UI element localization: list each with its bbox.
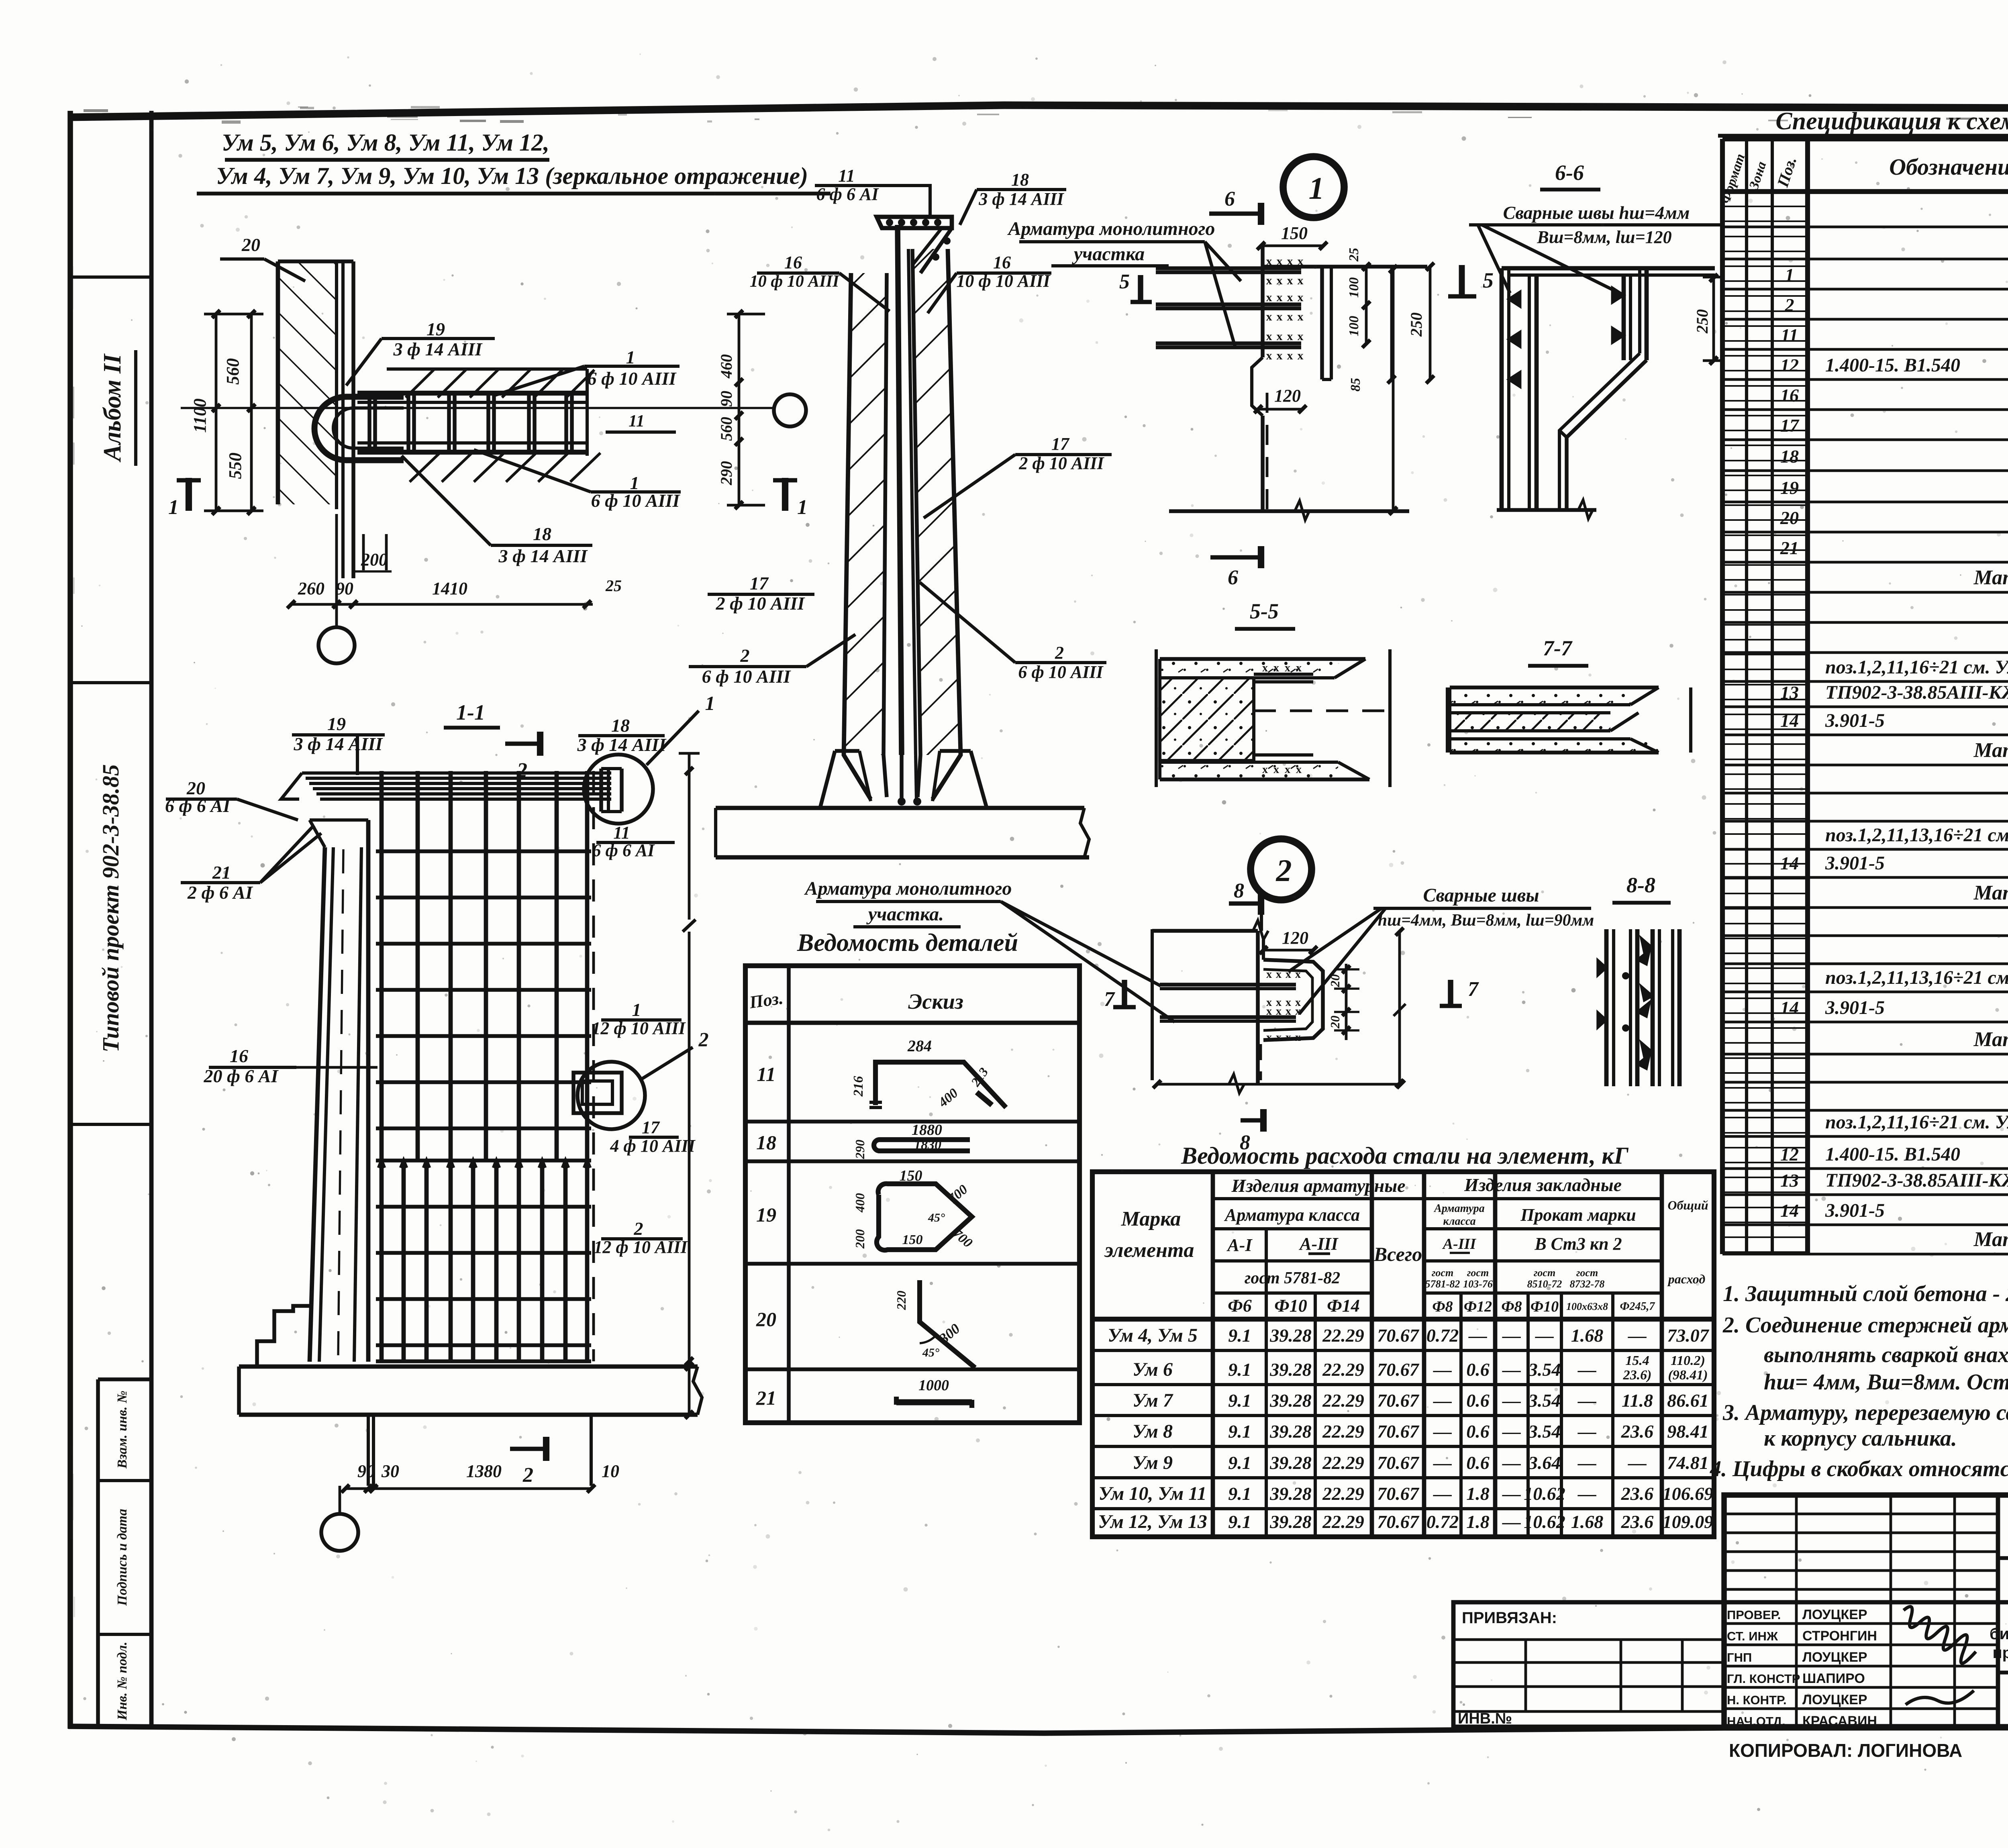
svg-text:Типовой проект 902-3-38.85: Типовой проект 902-3-38.85	[98, 764, 124, 1053]
svg-text:17: 17	[750, 573, 769, 594]
svg-text:x: x	[1298, 310, 1304, 323]
svg-text:284: 284	[907, 1037, 932, 1055]
svg-text:—: —	[1433, 1483, 1452, 1504]
svg-text:СТ. ИНЖ: СТ. ИНЖ	[1727, 1629, 1778, 1643]
svg-text:3.901-5: 3.901-5	[1825, 710, 1885, 731]
svg-text:39.28: 39.28	[1269, 1511, 1312, 1532]
svg-text:14: 14	[1780, 997, 1799, 1018]
svg-text:17: 17	[642, 1118, 660, 1137]
svg-text:НАЧ.ОТД.: НАЧ.ОТД.	[1727, 1714, 1786, 1728]
svg-text:1.68: 1.68	[1571, 1511, 1604, 1532]
svg-text:ПРИВЯЗАН:: ПРИВЯЗАН:	[1462, 1609, 1557, 1627]
svg-text:—: —	[1577, 1359, 1596, 1380]
svg-text:Марка: Марка	[1121, 1208, 1181, 1230]
svg-text:гост: гост	[1576, 1267, 1598, 1279]
svg-text:20: 20	[241, 235, 260, 255]
svg-text:Ведомость расхода стали на эле: Ведомость расхода стали на элемент, кГ	[1181, 1142, 1629, 1169]
svg-text:11: 11	[1781, 325, 1798, 345]
svg-text:ИНВ.№: ИНВ.№	[1458, 1710, 1512, 1727]
svg-text:x: x	[1298, 291, 1304, 304]
svg-text:560: 560	[223, 358, 243, 385]
svg-text:hш=4мм, Вш=8мм, lш=90мм: hш=4мм, Вш=8мм, lш=90мм	[1378, 911, 1594, 930]
svg-text:3 ф 14 АIII: 3 ф 14 АIII	[978, 189, 1064, 209]
svg-text:3.901-5: 3.901-5	[1825, 997, 1885, 1018]
svg-text:x: x	[1262, 662, 1268, 674]
svg-text:x: x	[1266, 310, 1272, 323]
svg-text:16: 16	[1780, 385, 1799, 406]
svg-text:39.28: 39.28	[1269, 1325, 1312, 1346]
svg-text:1: 1	[1785, 265, 1794, 285]
svg-text:Инв. № подл.: Инв. № подл.	[115, 1642, 130, 1720]
svg-text:11: 11	[629, 412, 645, 430]
svg-text:x: x	[1277, 330, 1283, 343]
svg-text:3.54: 3.54	[1528, 1421, 1561, 1442]
svg-text:5781-82: 5781-82	[1425, 1278, 1460, 1290]
svg-text:23.6: 23.6	[1621, 1421, 1654, 1442]
svg-text:19: 19	[756, 1203, 776, 1226]
svg-text:70.67: 70.67	[1377, 1390, 1420, 1411]
svg-text:элемента: элемента	[1104, 1239, 1194, 1262]
svg-text:6 ф 10 АIII: 6 ф 10 АIII	[588, 368, 677, 389]
svg-text:к корпусу сальника.: к корпусу сальника.	[1764, 1426, 1957, 1451]
svg-text:А-III: А-III	[1442, 1236, 1477, 1252]
svg-text:x: x	[1295, 968, 1301, 981]
svg-text:Н. КОНТР.: Н. КОНТР.	[1727, 1693, 1787, 1707]
svg-text:18: 18	[1780, 446, 1799, 467]
svg-text:x: x	[1287, 330, 1293, 343]
svg-text:x: x	[1295, 1031, 1301, 1044]
svg-text:9.1: 9.1	[1228, 1359, 1251, 1380]
svg-text:—: —	[1433, 1390, 1452, 1411]
svg-text:20: 20	[1328, 974, 1342, 987]
svg-text:Ум 5, Ум 6, Ум 8, Ум 11, Ум 12: Ум 5, Ум 6, Ум 8, Ум 11, Ум 12,	[222, 129, 549, 156]
svg-text:3.54: 3.54	[1528, 1359, 1561, 1380]
svg-text:Обозначение: Обозначение	[1889, 154, 2008, 180]
svg-text:15.4: 15.4	[1625, 1353, 1649, 1368]
svg-text:9.1: 9.1	[1228, 1483, 1251, 1504]
svg-text:1.8: 1.8	[1466, 1483, 1490, 1504]
svg-text:Сварные швы hш=4мм: Сварные швы hш=4мм	[1503, 202, 1690, 223]
svg-text:1.8: 1.8	[1466, 1511, 1490, 1532]
svg-text:x: x	[1266, 1031, 1272, 1044]
svg-text:5-5: 5-5	[1250, 599, 1279, 623]
svg-text:110.2): 110.2)	[1671, 1353, 1705, 1368]
svg-text:22.29: 22.29	[1322, 1483, 1364, 1504]
svg-text:39.28: 39.28	[1269, 1483, 1312, 1504]
svg-text:13: 13	[1780, 1170, 1799, 1191]
svg-text:Материалы:: Материалы:	[1973, 881, 2008, 904]
svg-text:70.67: 70.67	[1377, 1421, 1420, 1442]
svg-text:Арматура класса: Арматура класса	[1224, 1205, 1360, 1225]
svg-text:14: 14	[1780, 1200, 1799, 1221]
svg-text:150: 150	[1281, 223, 1308, 243]
svg-text:39.28: 39.28	[1269, 1421, 1312, 1442]
svg-text:9.1: 9.1	[1228, 1390, 1251, 1411]
svg-text:1000: 1000	[918, 1377, 949, 1394]
svg-text:участка: участка	[1072, 243, 1145, 265]
svg-text:1: 1	[1309, 171, 1324, 206]
svg-text:гост: гост	[1432, 1267, 1453, 1279]
svg-text:216: 216	[851, 1076, 866, 1097]
svg-text:2: 2	[1276, 853, 1292, 888]
svg-text:560: 560	[717, 417, 735, 441]
svg-text:—: —	[1502, 1325, 1521, 1346]
svg-text:9.1: 9.1	[1228, 1452, 1251, 1473]
svg-text:поз.1,2,11,13,16÷21 см. Ум6: поз.1,2,11,13,16÷21 см. Ум6	[1825, 967, 2008, 988]
svg-text:0.6: 0.6	[1466, 1452, 1490, 1473]
svg-text:Ведомость деталей: Ведомость деталей	[797, 929, 1018, 957]
svg-text:90: 90	[717, 391, 735, 407]
svg-text:x: x	[1285, 662, 1290, 674]
svg-text:Ф245,7: Ф245,7	[1620, 1300, 1655, 1313]
svg-text:11.8: 11.8	[1622, 1390, 1653, 1411]
svg-text:14: 14	[1780, 853, 1799, 873]
svg-text:Спецификация к схеме расположе: Спецификация к схеме расположения армату…	[1775, 108, 2008, 135]
svg-text:120: 120	[1274, 386, 1301, 406]
svg-text:x: x	[1266, 1005, 1272, 1018]
svg-text:200: 200	[361, 550, 388, 569]
svg-text:17: 17	[1051, 434, 1070, 454]
svg-text:x: x	[1266, 349, 1272, 362]
svg-text:ТП902-3-38.85АIII-КЖИ.МН1: ТП902-3-38.85АIII-КЖИ.МН1	[1825, 1170, 2008, 1191]
svg-text:Ум 10, Ум 11: Ум 10, Ум 11	[1098, 1483, 1206, 1504]
svg-text:Арматура монолитного: Арматура монолитного	[804, 878, 1012, 899]
svg-text:Материалы:: Материалы:	[1973, 566, 2008, 589]
svg-text:21: 21	[756, 1387, 776, 1409]
svg-text:73.07: 73.07	[1667, 1325, 1710, 1346]
svg-text:260: 260	[298, 579, 324, 598]
svg-text:—: —	[1433, 1452, 1452, 1473]
svg-text:70.67: 70.67	[1377, 1483, 1420, 1504]
svg-text:70.67: 70.67	[1377, 1325, 1420, 1346]
svg-text:2: 2	[522, 1464, 533, 1487]
svg-text:23.6: 23.6	[1621, 1511, 1654, 1532]
svg-text:250: 250	[1407, 312, 1425, 337]
svg-text:11: 11	[613, 823, 630, 842]
svg-text:Вш=8мм, lш=120: Вш=8мм, lш=120	[1537, 227, 1671, 247]
svg-text:Ум 4, Ум 7, Ум 9, Ум 10, Ум 13: Ум 4, Ум 7, Ум 9, Ум 10, Ум 13 (зеркальн…	[216, 163, 808, 189]
svg-text:участка.: участка.	[866, 904, 944, 925]
svg-text:39.28: 39.28	[1269, 1390, 1312, 1411]
svg-text:2 ф 10 АIII: 2 ф 10 АIII	[716, 593, 806, 614]
svg-text:1100: 1100	[190, 398, 210, 433]
svg-text:x: x	[1296, 662, 1302, 674]
svg-text:—: —	[1433, 1359, 1452, 1380]
svg-text:5: 5	[1119, 270, 1130, 293]
svg-text:Подпись и дата: Подпись и дата	[115, 1509, 130, 1606]
svg-text:18: 18	[756, 1131, 776, 1154]
svg-text:2: 2	[634, 1218, 643, 1239]
svg-text:2. Соединение стержней арматур: 2. Соединение стержней арматуры поз. 18,…	[1722, 1313, 2008, 1338]
svg-text:x: x	[1276, 1031, 1282, 1044]
svg-text:Ум 8: Ум 8	[1133, 1421, 1173, 1442]
svg-text:7-7: 7-7	[1543, 636, 1573, 660]
svg-text:18: 18	[611, 715, 630, 736]
svg-text:Ум 12, Ум 13: Ум 12, Ум 13	[1098, 1511, 1207, 1532]
svg-text:9.1: 9.1	[1228, 1325, 1251, 1346]
svg-text:—: —	[1502, 1452, 1521, 1473]
svg-text:Материалы:: Материалы:	[1973, 739, 2008, 762]
svg-text:11: 11	[757, 1063, 775, 1085]
svg-text:9.1: 9.1	[1228, 1511, 1251, 1532]
svg-text:1880: 1880	[912, 1122, 942, 1138]
svg-text:550: 550	[225, 453, 245, 479]
svg-text:КОПИРОВАЛ: ЛОГИНОВА: КОПИРОВАЛ: ЛОГИНОВА	[1729, 1740, 1962, 1761]
svg-text:3. Арматуру, перерезаемую саль: 3. Арматуру, перерезаемую сальниками, от…	[1722, 1400, 2008, 1425]
svg-text:6 ф 10 АIII: 6 ф 10 АIII	[1018, 662, 1104, 682]
svg-text:1. Защитный слой бетона - 20мм: 1. Защитный слой бетона - 20мм.	[1723, 1281, 2008, 1306]
svg-text:x: x	[1273, 662, 1279, 674]
svg-text:x: x	[1266, 330, 1272, 343]
svg-text:90: 90	[357, 1461, 375, 1481]
svg-text:3 ф 14 АIII: 3 ф 14 АIII	[294, 734, 384, 754]
svg-text:Эскиз: Эскиз	[908, 989, 963, 1014]
svg-text:3.64: 3.64	[1528, 1452, 1561, 1473]
svg-text:гост: гост	[1534, 1267, 1555, 1279]
svg-text:23.6): 23.6)	[1623, 1368, 1652, 1383]
svg-text:Ф6: Ф6	[1228, 1296, 1251, 1316]
svg-text:—: —	[1502, 1421, 1521, 1442]
svg-text:45°: 45°	[922, 1346, 939, 1359]
svg-text:x: x	[1277, 349, 1283, 362]
svg-text:1.68: 1.68	[1571, 1325, 1604, 1346]
svg-text:СТРОНГИН: СТРОНГИН	[1802, 1628, 1877, 1644]
svg-text:11: 11	[838, 166, 855, 186]
svg-text:Ф14: Ф14	[1327, 1296, 1359, 1316]
svg-text:гост 5781-82: гост 5781-82	[1245, 1269, 1340, 1287]
svg-text:45°: 45°	[928, 1211, 945, 1224]
svg-text:поз.1,2,11,13,16÷21 см.Ум.6: поз.1,2,11,13,16÷21 см.Ум.6	[1825, 824, 2008, 846]
svg-text:18: 18	[533, 524, 551, 544]
svg-text:90: 90	[336, 579, 353, 598]
svg-text:Ум 9: Ум 9	[1133, 1452, 1173, 1473]
svg-text:Материалы:: Материалы:	[1973, 1228, 2008, 1251]
svg-text:x: x	[1266, 274, 1272, 287]
svg-text:ЛОУЦКЕР: ЛОУЦКЕР	[1802, 1650, 1867, 1665]
svg-text:39.28: 39.28	[1269, 1452, 1312, 1473]
svg-text:2: 2	[1785, 295, 1794, 315]
svg-text:0.6: 0.6	[1466, 1421, 1490, 1442]
svg-text:23.6: 23.6	[1621, 1483, 1654, 1504]
svg-text:400: 400	[853, 1193, 867, 1213]
svg-text:8-8: 8-8	[1626, 873, 1655, 897]
svg-text:А-I: А-I	[1226, 1235, 1253, 1255]
svg-text:10.62: 10.62	[1524, 1483, 1565, 1504]
svg-text:биологической очистки сточных: биологической очистки сточных вод	[1990, 1625, 2008, 1643]
svg-text:8: 8	[1234, 879, 1244, 902]
svg-text:1: 1	[168, 496, 179, 519]
svg-text:1: 1	[797, 496, 808, 519]
svg-text:3.901-5: 3.901-5	[1825, 853, 1885, 874]
svg-text:290: 290	[853, 1140, 867, 1159]
svg-text:16: 16	[230, 1046, 248, 1066]
svg-text:ПРОВЕР.: ПРОВЕР.	[1727, 1608, 1781, 1622]
svg-text:Взам. инв. №: Взам. инв. №	[115, 1391, 130, 1469]
svg-text:22.29: 22.29	[1322, 1421, 1364, 1442]
svg-text:13: 13	[1780, 682, 1799, 703]
svg-text:А-III: А-III	[1298, 1234, 1339, 1254]
svg-text:—: —	[1577, 1421, 1596, 1442]
svg-text:Ум 6: Ум 6	[1133, 1359, 1173, 1380]
svg-text:220: 220	[894, 1291, 908, 1310]
svg-text:расход: расход	[1667, 1272, 1706, 1286]
svg-text:Изделия арматурные: Изделия арматурные	[1231, 1175, 1405, 1196]
svg-text:4 ф 10 АIII: 4 ф 10 АIII	[610, 1136, 696, 1156]
svg-text:x: x	[1286, 1031, 1291, 1044]
svg-text:109.09: 109.09	[1663, 1511, 1714, 1532]
svg-text:выполнять сваркой внахлестку о: выполнять сваркой внахлестку односторонн…	[1764, 1342, 2008, 1367]
svg-text:20: 20	[756, 1308, 776, 1330]
svg-text:6 ф 6 АI: 6 ф 6 АI	[816, 184, 880, 204]
svg-text:Общий: Общий	[1667, 1198, 1708, 1212]
svg-text:10: 10	[602, 1461, 619, 1481]
svg-text:70.67: 70.67	[1377, 1452, 1420, 1473]
svg-text:hш= 4мм, Вш=8мм. Остальные сое: hш= 4мм, Вш=8мм. Остальные соединения вя…	[1764, 1370, 2008, 1395]
svg-text:3.54: 3.54	[1528, 1390, 1561, 1411]
svg-text:Арматура монолитного: Арматура монолитного	[1007, 218, 1215, 239]
svg-text:9.1: 9.1	[1228, 1421, 1251, 1442]
svg-text:17: 17	[1780, 415, 1800, 436]
svg-text:ТП902-3-38.85АIII-КЖИ.МН1: ТП902-3-38.85АIII-КЖИ.МН1	[1825, 682, 2008, 703]
svg-text:—: —	[1502, 1511, 1521, 1532]
svg-text:200: 200	[853, 1229, 867, 1249]
svg-text:—: —	[1502, 1483, 1521, 1504]
svg-text:Ф10: Ф10	[1274, 1296, 1307, 1316]
svg-text:6-6: 6-6	[1555, 161, 1584, 185]
svg-text:Изделия закладные: Изделия закладные	[1464, 1175, 1622, 1195]
svg-text:Ф12: Ф12	[1464, 1298, 1492, 1315]
svg-text:x: x	[1287, 310, 1293, 323]
svg-text:поз.1,2,11,16÷21 см. Ум4: поз.1,2,11,16÷21 см. Ум4	[1825, 1112, 2008, 1133]
svg-text:Альбом II: Альбом II	[99, 353, 126, 463]
svg-text:—: —	[1577, 1483, 1596, 1504]
svg-text:8510-72: 8510-72	[1527, 1278, 1562, 1290]
svg-text:x: x	[1287, 274, 1293, 287]
svg-text:(98.41): (98.41)	[1668, 1368, 1708, 1383]
svg-text:ГНП: ГНП	[1727, 1650, 1752, 1664]
svg-text:106.69: 106.69	[1663, 1483, 1714, 1504]
svg-text:2: 2	[1055, 643, 1064, 663]
svg-text:x: x	[1286, 1005, 1291, 1018]
svg-text:290: 290	[717, 461, 735, 485]
svg-text:20: 20	[1780, 508, 1799, 528]
svg-text:x: x	[1287, 349, 1293, 362]
svg-text:100: 100	[1347, 277, 1361, 298]
svg-text:100х63х8: 100х63х8	[1566, 1301, 1608, 1312]
svg-text:x: x	[1298, 349, 1304, 362]
svg-text:—: —	[1468, 1325, 1487, 1346]
svg-text:x: x	[1276, 968, 1282, 981]
svg-text:Ф8: Ф8	[1432, 1298, 1453, 1315]
svg-text:19: 19	[426, 319, 445, 339]
svg-text:22.29: 22.29	[1322, 1325, 1364, 1346]
svg-text:—: —	[1433, 1421, 1452, 1442]
svg-text:x: x	[1277, 291, 1283, 304]
svg-text:70.67: 70.67	[1377, 1359, 1420, 1380]
svg-text:7: 7	[1468, 978, 1479, 1001]
svg-text:86.61: 86.61	[1667, 1390, 1709, 1411]
svg-text:Материалы:: Материалы:	[1973, 1028, 2008, 1051]
svg-text:—: —	[1535, 1325, 1554, 1346]
svg-text:x: x	[1287, 291, 1293, 304]
svg-text:6 ф 10 АIII: 6 ф 10 АIII	[702, 666, 792, 687]
svg-text:Ф10: Ф10	[1530, 1298, 1559, 1315]
svg-text:ГЛ. КОНСТР: ГЛ. КОНСТР	[1727, 1672, 1800, 1686]
svg-text:x: x	[1277, 310, 1283, 323]
svg-text:20: 20	[1328, 1016, 1342, 1029]
svg-text:поз.1,2,11,16÷21 см. Ум 4: поз.1,2,11,16÷21 см. Ум 4	[1825, 657, 2008, 678]
svg-text:—: —	[1502, 1390, 1521, 1411]
svg-text:98.41: 98.41	[1667, 1421, 1709, 1442]
svg-text:Ум 4, Ум 5: Ум 4, Ум 5	[1108, 1325, 1198, 1346]
svg-text:гост: гост	[1467, 1267, 1489, 1279]
svg-text:0.6: 0.6	[1466, 1390, 1490, 1411]
svg-text:3 ф 14 АIII: 3 ф 14 АIII	[393, 339, 483, 359]
svg-text:Ум 7: Ум 7	[1133, 1390, 1173, 1411]
svg-text:22.29: 22.29	[1322, 1359, 1364, 1380]
svg-text:3 ф 14 АIII: 3 ф 14 АIII	[498, 546, 588, 566]
svg-text:100: 100	[1347, 316, 1361, 337]
svg-text:Арматура: Арматура	[1433, 1202, 1485, 1215]
svg-text:21: 21	[1780, 538, 1799, 558]
svg-text:10.62: 10.62	[1524, 1511, 1565, 1532]
svg-text:14: 14	[1780, 710, 1799, 731]
svg-text:Сварные швы: Сварные швы	[1423, 885, 1539, 906]
svg-text:x: x	[1286, 968, 1291, 981]
svg-text:3 ф 14 АIII: 3 ф 14 АIII	[577, 734, 667, 755]
svg-text:—: —	[1577, 1452, 1596, 1473]
svg-text:2 ф 10 АIII: 2 ф 10 АIII	[1018, 453, 1104, 473]
svg-text:1-1: 1-1	[456, 700, 485, 724]
svg-text:x: x	[1266, 968, 1272, 981]
svg-text:ЛОУЦКЕР: ЛОУЦКЕР	[1802, 1692, 1867, 1707]
svg-text:—: —	[1628, 1325, 1647, 1346]
svg-text:19: 19	[1780, 477, 1799, 498]
svg-text:производительностью 700 м3/сут: производительностью 700 м3/сутки	[1992, 1644, 2008, 1662]
svg-text:460: 460	[717, 354, 735, 379]
svg-text:22.29: 22.29	[1322, 1452, 1364, 1473]
svg-text:25: 25	[1347, 248, 1361, 262]
svg-text:22.29: 22.29	[1322, 1511, 1364, 1532]
svg-text:Прокат марки: Прокат марки	[1520, 1205, 1636, 1225]
svg-text:x: x	[1276, 1005, 1282, 1018]
svg-text:12: 12	[1780, 1144, 1799, 1165]
svg-text:1410: 1410	[432, 579, 467, 598]
svg-text:39.28: 39.28	[1269, 1359, 1312, 1380]
svg-text:22.29: 22.29	[1322, 1390, 1364, 1411]
svg-text:—: —	[1628, 1452, 1647, 1473]
svg-text:x: x	[1298, 274, 1304, 287]
svg-text:2 ф 6 АI: 2 ф 6 АI	[187, 882, 253, 903]
svg-text:120: 120	[1282, 928, 1308, 948]
svg-text:В Ст3 кп 2: В Ст3 кп 2	[1534, 1234, 1622, 1254]
svg-text:30: 30	[381, 1461, 399, 1481]
svg-text:0.72: 0.72	[1426, 1511, 1459, 1532]
svg-text:3.901-5: 3.901-5	[1825, 1200, 1885, 1221]
svg-text:8732-78: 8732-78	[1570, 1278, 1605, 1290]
svg-text:ШАПИРО: ШАПИРО	[1802, 1671, 1865, 1686]
svg-text:6: 6	[1228, 566, 1238, 589]
svg-text:16: 16	[993, 253, 1011, 272]
svg-text:1: 1	[705, 692, 715, 714]
svg-text:x: x	[1298, 330, 1304, 343]
svg-text:1.400-15. В1.540: 1.400-15. В1.540	[1825, 355, 1960, 376]
svg-text:КРАСАВИН: КРАСАВИН	[1802, 1713, 1877, 1729]
svg-text:21: 21	[212, 862, 231, 883]
svg-text:1: 1	[632, 999, 641, 1020]
svg-text:6: 6	[1224, 188, 1235, 210]
svg-text:класса: класса	[1443, 1215, 1475, 1228]
